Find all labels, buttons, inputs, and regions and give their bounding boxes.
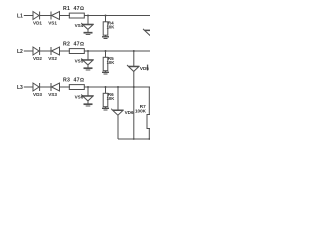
node A3 (87, 86, 89, 88)
svg-text:VS1: VS1 (48, 20, 57, 25)
diode VD3 (33, 83, 42, 97)
diode VS2 (48, 47, 59, 61)
svg-text:VS6: VS6 (75, 94, 84, 99)
wire (105, 16, 107, 22)
wire (87, 51, 89, 60)
diode VD2 (33, 47, 42, 61)
wire (84, 50, 150, 52)
svg-text:VD1: VD1 (33, 20, 42, 25)
svg-text:10K: 10K (107, 60, 115, 65)
wire (40, 15, 51, 17)
wire stub (cropped at edge) (147, 65, 148, 71)
node F2 (148, 138, 150, 140)
wire bus (118, 138, 150, 140)
svg-text:47Ω: 47Ω (74, 41, 85, 47)
wire (24, 15, 33, 17)
wire (40, 50, 51, 52)
resistor R1 (63, 6, 84, 18)
wire (24, 50, 33, 52)
zener VD4 (143, 29, 155, 36)
wire (87, 29, 89, 32)
resistor R6 (103, 92, 114, 107)
ground (84, 33, 93, 35)
wire (24, 86, 33, 88)
wire (87, 65, 89, 68)
node B2 (105, 50, 107, 52)
svg-text:L2: L2 (17, 49, 23, 55)
zener VS4 (75, 23, 94, 30)
ground (84, 68, 93, 70)
svg-text:R1: R1 (63, 6, 70, 12)
svg-text:VS3: VS3 (48, 92, 57, 97)
wire (133, 87, 135, 139)
wire (60, 50, 71, 52)
node D2 (133, 86, 135, 88)
svg-text:VD5: VD5 (140, 66, 149, 71)
diode VD1 (33, 12, 42, 26)
wire (148, 129, 150, 140)
wire (133, 51, 135, 66)
wire (148, 87, 150, 115)
resistor R4 (103, 21, 114, 36)
wire (87, 101, 89, 104)
wire (87, 16, 89, 25)
wire (105, 87, 107, 93)
wire (87, 87, 89, 96)
svg-text:R2: R2 (63, 41, 70, 47)
wire (117, 115, 119, 139)
svg-text:VS2: VS2 (48, 56, 57, 61)
zener VD6 (111, 109, 134, 116)
ground (102, 107, 109, 110)
wire (84, 15, 150, 17)
wire (40, 86, 51, 88)
svg-text:10K: 10K (107, 25, 115, 30)
node A1 (87, 15, 89, 17)
diode VS1 (48, 12, 59, 26)
resistor R2 (63, 41, 84, 53)
wire (84, 86, 150, 88)
diode VS3 (48, 83, 59, 97)
wire (133, 71, 135, 87)
svg-text:VD6: VD6 (125, 110, 134, 115)
zener VS6 (75, 94, 94, 101)
svg-text:L1: L1 (17, 14, 23, 20)
svg-text:47Ω: 47Ω (74, 77, 85, 83)
resistor R5 (103, 56, 114, 71)
node D1 (133, 50, 135, 52)
wire (60, 86, 71, 88)
node B3 (105, 86, 107, 88)
resistor R3 (63, 77, 84, 89)
svg-text:VS4: VS4 (75, 23, 84, 28)
wire (105, 51, 107, 57)
node E1 (117, 86, 119, 88)
svg-text:VS5: VS5 (75, 58, 84, 63)
wire (117, 87, 119, 110)
node B1 (105, 15, 107, 17)
wire (60, 15, 71, 17)
ground (84, 104, 93, 106)
node F1 (133, 138, 135, 140)
svg-text:VD3: VD3 (33, 92, 42, 97)
svg-text:VD2: VD2 (33, 56, 42, 61)
ground (102, 35, 109, 38)
ground (102, 71, 109, 74)
zener VD5 (127, 65, 149, 72)
svg-text:10K: 10K (107, 96, 115, 101)
node A2 (87, 50, 89, 52)
zener VS5 (75, 58, 94, 65)
svg-text:L3: L3 (17, 85, 23, 91)
resistor R7 (135, 104, 152, 129)
svg-text:47Ω: 47Ω (74, 6, 85, 12)
svg-text:R3: R3 (63, 77, 70, 83)
svg-text:100K: 100K (135, 109, 147, 114)
